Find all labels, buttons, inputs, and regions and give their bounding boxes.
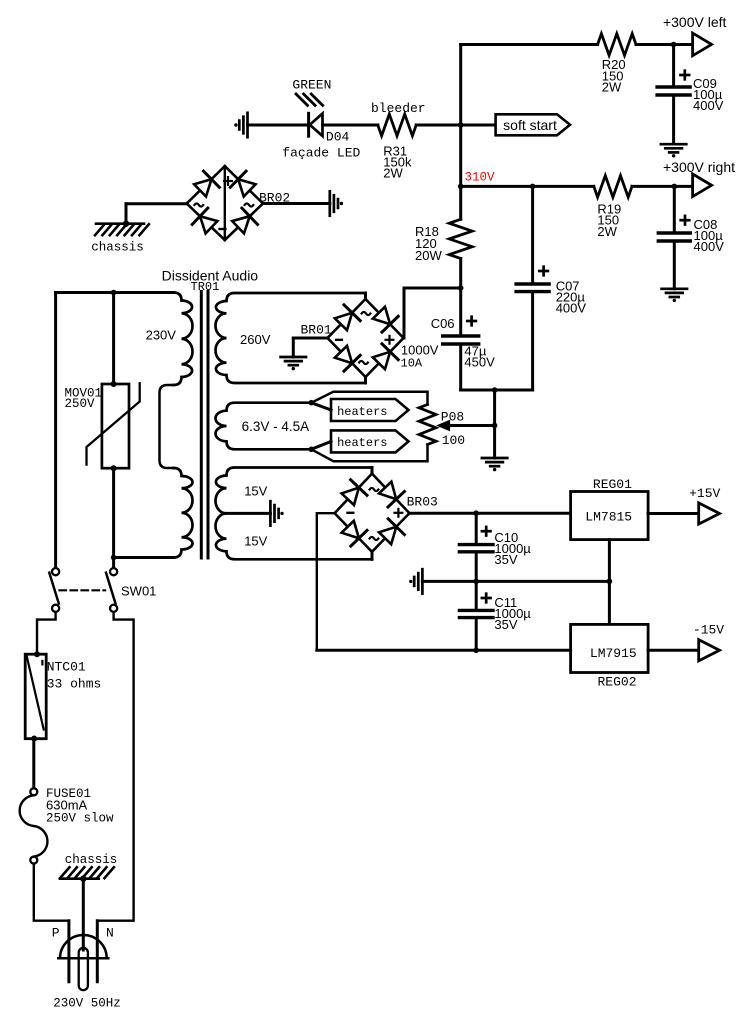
svg-text:GREEN: GREEN (292, 78, 331, 93)
svg-text:N: N (106, 926, 114, 941)
svg-text:400V: 400V (556, 301, 587, 316)
svg-text:D04: D04 (326, 130, 350, 145)
svg-text:450V: 450V (464, 355, 495, 370)
svg-text:BR03: BR03 (407, 495, 438, 510)
svg-text:230V: 230V (146, 328, 177, 343)
svg-text:SW01: SW01 (121, 584, 156, 599)
svg-text:10A: 10A (401, 357, 423, 371)
svg-text:20W: 20W (415, 248, 442, 263)
svg-text:250V slow: 250V slow (46, 812, 114, 826)
svg-text:230V 50Hz: 230V 50Hz (53, 996, 121, 1010)
svg-text:heaters: heaters (337, 405, 387, 419)
svg-text:260V: 260V (240, 332, 271, 347)
svg-text:15V: 15V (244, 534, 267, 549)
svg-text:LM7915: LM7915 (590, 646, 637, 661)
svg-text:C06: C06 (431, 316, 455, 331)
svg-text:+300V right: +300V right (663, 159, 735, 175)
svg-text:REG02: REG02 (598, 674, 637, 689)
svg-text:façade LED: façade LED (282, 146, 360, 161)
svg-text:LM7815: LM7815 (585, 509, 632, 524)
svg-text:2W: 2W (597, 224, 617, 239)
svg-text:35V: 35V (494, 617, 517, 632)
svg-text:P: P (52, 926, 60, 941)
svg-text:+300V left: +300V left (663, 14, 727, 30)
svg-text:soft start: soft start (503, 117, 557, 133)
svg-text:TR01: TR01 (191, 280, 220, 294)
svg-text:P08: P08 (441, 409, 464, 424)
svg-text:chassis: chassis (65, 853, 118, 867)
svg-text:400V: 400V (694, 239, 725, 254)
svg-text:35V: 35V (494, 552, 517, 567)
svg-text:bleeder: bleeder (371, 101, 426, 116)
svg-text:6.3V - 4.5A: 6.3V - 4.5A (242, 419, 310, 434)
svg-text:1000V: 1000V (401, 343, 439, 358)
svg-text:100: 100 (442, 433, 465, 448)
svg-text:15V: 15V (244, 484, 267, 499)
svg-text:heaters: heaters (337, 436, 387, 450)
svg-text:2W: 2W (602, 80, 622, 95)
svg-text:chassis: chassis (91, 241, 144, 255)
svg-text:+15V: +15V (689, 486, 720, 501)
svg-text:630mA: 630mA (46, 798, 88, 813)
svg-text:2W: 2W (383, 166, 403, 181)
svg-text:-15V: -15V (693, 623, 724, 638)
svg-text:NTC01: NTC01 (47, 660, 86, 675)
svg-text:33 ohms: 33 ohms (47, 676, 102, 691)
svg-text:250V: 250V (65, 397, 96, 411)
svg-text:400V: 400V (693, 98, 724, 113)
svg-text:310V: 310V (465, 171, 496, 185)
svg-text:BR01: BR01 (301, 322, 332, 337)
svg-text:REG01: REG01 (593, 477, 632, 492)
